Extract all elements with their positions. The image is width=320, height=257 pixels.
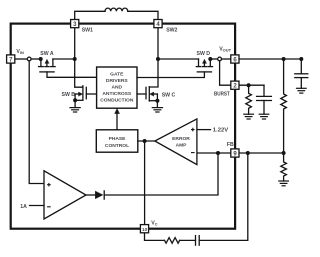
- resistor R comp: [165, 238, 180, 244]
- svg-text:AMP: AMP: [176, 143, 188, 149]
- svg-text:CONDUCTION: CONDUCTION: [100, 97, 134, 103]
- wire VIN down to 1A amp + input: [29, 61, 44, 184]
- ground SW B: [70, 108, 80, 112]
- capacitor C comp: [196, 236, 200, 246]
- wire VC vertical: [144, 141, 146, 224]
- wire inductor to pin4: [128, 11, 158, 23]
- ground divider: [279, 181, 289, 186]
- svg-text:SW C: SW C: [162, 93, 176, 99]
- svg-text:1A: 1A: [20, 204, 27, 210]
- pin 7: [7, 55, 15, 63]
- capacitor COUT: [295, 59, 308, 88]
- comparator 1A: [44, 171, 86, 219]
- transistor SW C (NMOS): [137, 87, 159, 108]
- junction burst R: [247, 83, 251, 87]
- plus sign error amp: [191, 128, 195, 132]
- wire SW D to VOUT circle: [210, 58, 217, 60]
- junction diode feedback: [216, 151, 220, 155]
- pin 2: [231, 81, 239, 89]
- chip boundary: [11, 24, 235, 229]
- ground burst C: [259, 114, 269, 119]
- svg-text:10: 10: [142, 227, 148, 233]
- wire pin9 to divider: [239, 152, 283, 154]
- wire SW2 node vertical: [149, 28, 158, 87]
- minus sign error amp: [191, 152, 195, 154]
- block text phase control: [105, 136, 129, 149]
- junction SW A drain: [39, 57, 43, 61]
- pin 6: [231, 55, 239, 63]
- wire resistor to pin10: [145, 233, 165, 240]
- junction SW2/SWD: [156, 57, 160, 61]
- svg-text:ANTICROSS: ANTICROSS: [102, 91, 132, 97]
- svg-text:VC: VC: [151, 221, 157, 227]
- wire pin3 to inductor: [75, 11, 105, 23]
- svg-text:SW2: SW2: [166, 27, 177, 33]
- wire FB error amp to pin9: [197, 152, 231, 154]
- resistor R1 divider upper: [281, 59, 287, 153]
- wire SW1 node vertical: [75, 28, 83, 87]
- wire VOUT down to pin2: [220, 61, 231, 85]
- inductor L1: [105, 8, 128, 11]
- junction FB divider: [282, 151, 286, 155]
- svg-text:1.22V: 1.22V: [213, 127, 229, 133]
- block gate drivers U1: [97, 67, 137, 108]
- opamp signs error amp: [191, 128, 195, 153]
- node VOUT circle: [218, 57, 222, 61]
- wire VOUT circle to pin6: [222, 58, 231, 60]
- resistor R burst: [246, 85, 252, 114]
- pin 10: [140, 225, 148, 233]
- arrow phase to gate drivers: [115, 109, 120, 130]
- wire SW A to SW1 node: [53, 58, 75, 60]
- svg-text:DRIVERS: DRIVERS: [106, 78, 128, 84]
- block phase control U3: [96, 130, 138, 152]
- wire VIN pin7 to node circle: [15, 58, 27, 60]
- svg-text:AND: AND: [111, 85, 122, 91]
- svg-text:SW A: SW A: [40, 51, 54, 57]
- svg-text:CONTROL: CONTROL: [105, 143, 129, 149]
- pin 4: [154, 20, 162, 28]
- minus sign 1A comparator: [47, 206, 51, 208]
- svg-text:PHASE: PHASE: [109, 136, 127, 142]
- capacitor C burst: [257, 85, 272, 114]
- transistor SW B (NMOS): [73, 86, 97, 108]
- pin 9: [231, 149, 239, 157]
- svg-text:ERROR: ERROR: [172, 136, 190, 142]
- svg-text:VOUT: VOUT: [219, 47, 231, 53]
- error amp U2: [155, 119, 211, 165]
- svg-text:SW1: SW1: [82, 27, 93, 33]
- wire 1A minus input: [30, 205, 45, 207]
- node VIN circle: [27, 57, 31, 61]
- ground SW C: [152, 108, 162, 112]
- svg-text:FB: FB: [227, 142, 234, 148]
- transistor SW D (PMOS): [137, 57, 218, 78]
- svg-text:SW D: SW D: [197, 51, 211, 57]
- transistor SW A (PMOS): [39, 59, 97, 77]
- opamp signs 1A: [47, 183, 51, 207]
- diode D1: [95, 191, 104, 199]
- junction VC: [143, 139, 147, 143]
- pin 3: [71, 20, 79, 28]
- wire phase to error amp: [138, 140, 155, 142]
- wire 1A output to diode: [86, 194, 95, 196]
- svg-text:SW B: SW B: [62, 92, 76, 98]
- block text gate drivers: [100, 72, 134, 104]
- wire pin2 to burst RC: [239, 84, 264, 86]
- wire diode to FB junction: [104, 155, 218, 195]
- svg-text:GATE: GATE: [110, 72, 124, 78]
- plus sign 1A comparator: [47, 183, 51, 187]
- wire VIN circle to SW A: [31, 58, 41, 60]
- text error amp: [172, 136, 190, 149]
- resistor R2 divider lower: [281, 153, 287, 181]
- junction comp loop: [246, 151, 250, 155]
- svg-text:BURST: BURST: [214, 92, 231, 98]
- ground burst R: [244, 114, 254, 119]
- ground COUT: [297, 88, 307, 93]
- junction SW1/SWA: [73, 57, 77, 61]
- junction FB divider top: [282, 57, 286, 61]
- svg-text:VIN: VIN: [16, 49, 24, 55]
- wire cap to resistor: [180, 239, 196, 241]
- wire pin6 to output rail: [239, 58, 301, 60]
- wire comp network loop: [199, 153, 248, 240]
- junction output cap: [299, 57, 303, 61]
